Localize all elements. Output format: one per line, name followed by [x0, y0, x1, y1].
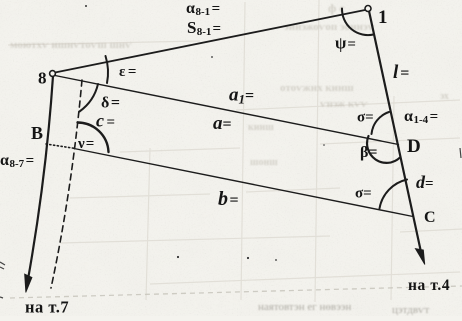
svg-text:цэтдвѵт: цэтдвѵт — [392, 304, 430, 316]
svg-text:наятовтэн ег нөвээн: наятовтэн ег нөвээн — [258, 301, 352, 313]
angle arc epsilon at 8 — [106, 56, 109, 83]
svg-text:8: 8 — [38, 69, 47, 88]
svg-text:D: D — [407, 136, 421, 157]
angle arc sigma at C — [380, 180, 408, 209]
svg-text:на т.4: на т.4 — [408, 277, 450, 294]
wire: side S (line from 8 to 1) — [55, 10, 365, 73]
angle arc sigma at D — [372, 112, 390, 134]
svg-text:на т.7: на т.7 — [25, 298, 69, 317]
svg-text:шонш: шонш — [250, 157, 278, 168]
svg-text:δ=: δ= — [101, 95, 120, 112]
svg-text:моютхѵ ишнѵтоѵш шнѵ: моютхѵ ишнѵтоѵш шнѵ — [10, 39, 132, 51]
svg-text:ѵнэж кѵѵ: ѵнэж кѵѵ — [320, 98, 368, 110]
stray specks — [0, 148, 461, 298]
faint bleed-through text — [10, 1, 449, 168]
svg-text:ψ=: ψ= — [335, 34, 356, 53]
angle arc nu/c at V — [78, 122, 109, 152]
wire: dotted tie from line B to vertex V — [46, 144, 74, 148]
svg-text:σ=: σ= — [355, 186, 372, 202]
svg-text:a=: a= — [213, 113, 232, 134]
svg-text:β=: β= — [360, 144, 378, 161]
svg-text:эх: эх — [440, 91, 449, 102]
wire: dashed reference line from a down — [51, 80, 82, 288]
svg-text:1: 1 — [378, 7, 388, 28]
faint dashed rule near bottom — [10, 286, 462, 298]
svg-text:C: C — [424, 209, 436, 226]
angle arc psi at 1 — [342, 9, 374, 36]
svg-text:отоѵжнх кинш: отоѵжнх кинш — [280, 82, 354, 94]
svg-text:σ=: σ= — [357, 110, 374, 126]
svg-text:кинш: кинш — [248, 122, 274, 133]
svg-text:ε=: ε= — [119, 64, 136, 80]
wire: side b (line from V to C) — [74, 149, 413, 217]
svg-text:l=: l= — [393, 62, 409, 83]
angle arc delta at 8 — [80, 84, 99, 112]
wire: line B from 8 with arrow to t.7 — [27, 76, 53, 286]
svg-text:B: B — [31, 123, 43, 143]
wire: side a / a1 (line from 8 to D) — [55, 76, 399, 145]
wire: right traverse line 1-D-C with arrow to t.4 — [369, 11, 423, 259]
angle arc beta at D — [367, 136, 400, 163]
node 1 (open circle) — [365, 6, 371, 12]
node 8 (open circle) — [50, 71, 56, 77]
svg-text:ν=: ν= — [77, 136, 94, 152]
